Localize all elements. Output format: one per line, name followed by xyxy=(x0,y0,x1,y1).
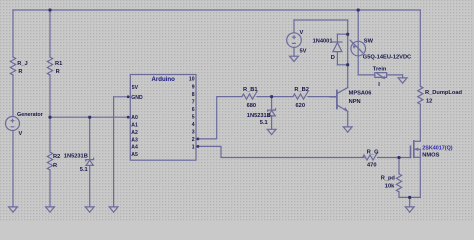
svg-text:R2: R2 xyxy=(53,154,60,160)
svg-text:3: 3 xyxy=(192,130,195,136)
svg-text:R_B2: R_B2 xyxy=(294,87,309,93)
svg-text:R_J: R_J xyxy=(17,61,27,67)
svg-text:6: 6 xyxy=(192,107,195,113)
svg-text:1: 1 xyxy=(192,145,195,151)
svg-text:10: 10 xyxy=(189,77,195,83)
svg-text:5V: 5V xyxy=(132,85,139,91)
svg-text:R: R xyxy=(53,163,57,169)
svg-text:1N5231B: 1N5231B xyxy=(64,154,88,160)
svg-text:A4: A4 xyxy=(131,145,138,151)
svg-text:V: V xyxy=(19,131,23,137)
svg-text:D: D xyxy=(331,55,335,61)
svg-text:5.1: 5.1 xyxy=(80,167,88,173)
svg-text:4: 4 xyxy=(192,122,195,128)
svg-text:470: 470 xyxy=(367,162,377,168)
svg-text:2SK4017(Q): 2SK4017(Q) xyxy=(422,146,452,152)
svg-text:GND: GND xyxy=(131,95,143,101)
svg-text:Trein: Trein xyxy=(373,67,387,73)
svg-text:9: 9 xyxy=(192,84,195,90)
svg-text:R_DumpLoad: R_DumpLoad xyxy=(425,90,462,96)
svg-text:A2: A2 xyxy=(131,130,138,136)
svg-text:A1: A1 xyxy=(131,123,138,129)
svg-text:2: 2 xyxy=(192,137,195,143)
svg-text:G5Q-14EU-12VDC: G5Q-14EU-12VDC xyxy=(363,55,411,61)
svg-text:1N5231B: 1N5231B xyxy=(247,113,271,119)
svg-text:R: R xyxy=(18,69,22,75)
svg-text:SW: SW xyxy=(364,38,374,44)
svg-text:A5: A5 xyxy=(131,152,138,158)
svg-text:5V: 5V xyxy=(300,48,307,54)
svg-text:A3: A3 xyxy=(131,137,138,143)
svg-text:R_B1: R_B1 xyxy=(243,87,258,93)
svg-text:5.1: 5.1 xyxy=(260,120,268,126)
svg-text:NMOS: NMOS xyxy=(422,153,439,159)
svg-text:7: 7 xyxy=(192,99,195,105)
svg-text:1N4001: 1N4001 xyxy=(313,39,333,45)
svg-text:NPN: NPN xyxy=(349,99,361,105)
svg-text:Arduino: Arduino xyxy=(152,76,176,83)
svg-text:10k: 10k xyxy=(385,184,395,190)
svg-text:R: R xyxy=(56,69,60,75)
svg-text:MPSA06: MPSA06 xyxy=(349,91,372,97)
svg-text:V: V xyxy=(300,30,304,36)
svg-text:5: 5 xyxy=(192,114,195,120)
svg-text:12: 12 xyxy=(426,98,432,104)
svg-text:620: 620 xyxy=(296,103,306,109)
svg-text:R1: R1 xyxy=(55,61,62,67)
svg-text:R_G: R_G xyxy=(367,150,379,156)
svg-text:R_pd: R_pd xyxy=(381,175,396,181)
svg-text:680: 680 xyxy=(247,103,257,109)
svg-text:Generator: Generator xyxy=(17,112,44,118)
svg-text:8: 8 xyxy=(192,92,195,98)
svg-text:A0: A0 xyxy=(131,115,138,121)
